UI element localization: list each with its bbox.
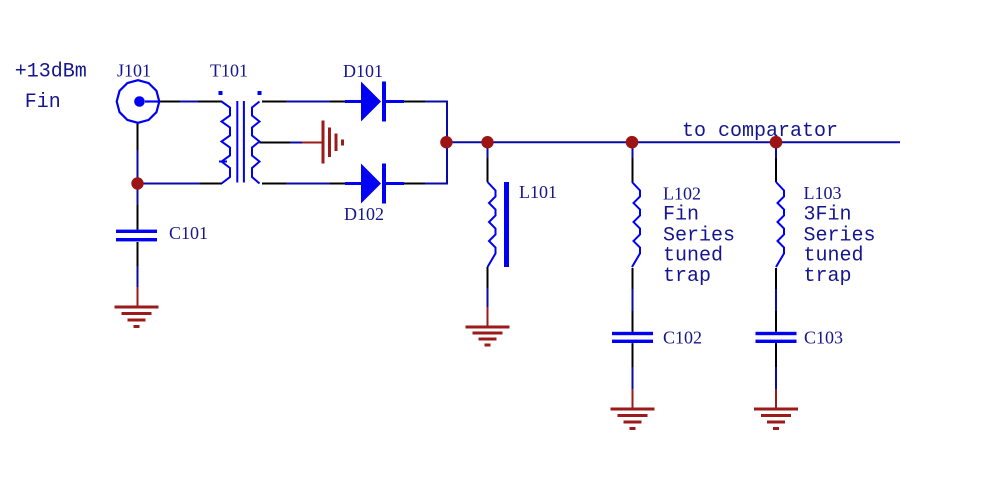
svg-text:D102: D102 xyxy=(344,204,384,224)
svg-text:T101: T101 xyxy=(210,61,248,81)
svg-text:to comparator: to comparator xyxy=(682,120,838,143)
svg-text:C102: C102 xyxy=(663,328,702,348)
svg-text:trap: trap xyxy=(663,265,711,288)
svg-text:L101: L101 xyxy=(519,182,557,202)
svg-text:trap: trap xyxy=(804,265,852,288)
svg-text:Fin: Fin xyxy=(25,91,61,114)
svg-text:J101: J101 xyxy=(117,61,151,81)
svg-text:C101: C101 xyxy=(169,223,208,243)
svg-text:C103: C103 xyxy=(804,328,843,348)
svg-text:L102: L102 xyxy=(663,184,701,204)
svg-text:L103: L103 xyxy=(804,183,842,203)
svg-text:3Fin: 3Fin xyxy=(804,204,852,227)
svg-text:D101: D101 xyxy=(343,61,383,81)
svg-text:+13dBm: +13dBm xyxy=(15,60,87,83)
svg-text:Fin: Fin xyxy=(663,204,699,227)
